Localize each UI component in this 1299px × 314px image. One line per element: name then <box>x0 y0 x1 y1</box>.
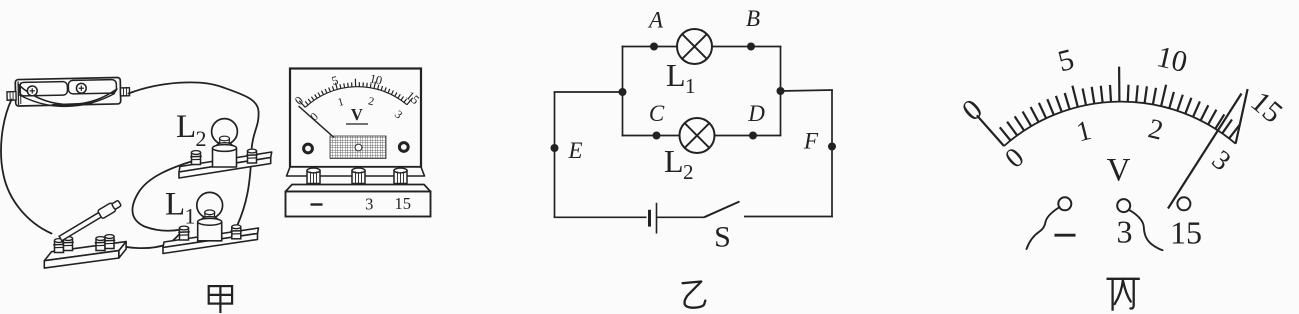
svg-text:5: 5 <box>1055 43 1078 79</box>
svg-text:3: 3 <box>1117 214 1133 250</box>
svg-text:2: 2 <box>196 126 207 151</box>
svg-text:A: A <box>647 8 664 33</box>
svg-text:15: 15 <box>1170 215 1202 251</box>
svg-text:3: 3 <box>365 195 373 214</box>
svg-text:V: V <box>1107 153 1131 189</box>
svg-text:1: 1 <box>185 204 196 229</box>
svg-text:1: 1 <box>685 74 696 98</box>
svg-text:B: B <box>746 6 760 31</box>
svg-text:L: L <box>165 187 185 223</box>
svg-text:2: 2 <box>1145 113 1166 146</box>
svg-text:C: C <box>649 101 665 126</box>
svg-text:3: 3 <box>1206 145 1237 178</box>
svg-text:1: 1 <box>1073 115 1094 148</box>
svg-text:L: L <box>664 143 684 179</box>
svg-text:E: E <box>567 138 582 163</box>
svg-text:15: 15 <box>1245 85 1289 130</box>
svg-text:F: F <box>803 129 819 154</box>
svg-text:V: V <box>351 105 363 124</box>
svg-text:0: 0 <box>999 142 1030 174</box>
svg-text:L: L <box>176 109 196 145</box>
svg-text:L: L <box>666 57 686 93</box>
svg-text:D: D <box>747 101 765 126</box>
svg-text:S: S <box>714 221 731 254</box>
svg-text:2: 2 <box>683 160 694 184</box>
svg-text:10: 10 <box>1154 40 1191 79</box>
svg-text:15: 15 <box>394 194 411 213</box>
